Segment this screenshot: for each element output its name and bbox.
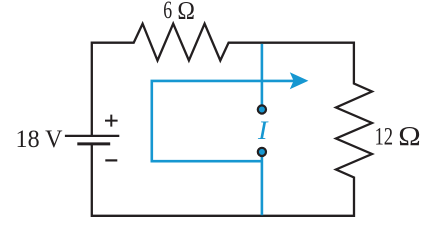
svg-text:6: 6 xyxy=(163,0,172,24)
svg-text:Ω: Ω xyxy=(398,121,420,151)
svg-text:18 V: 18 V xyxy=(16,126,63,153)
svg-text:I: I xyxy=(257,116,270,145)
svg-text:Ω: Ω xyxy=(177,0,195,25)
svg-text:12: 12 xyxy=(375,122,394,150)
